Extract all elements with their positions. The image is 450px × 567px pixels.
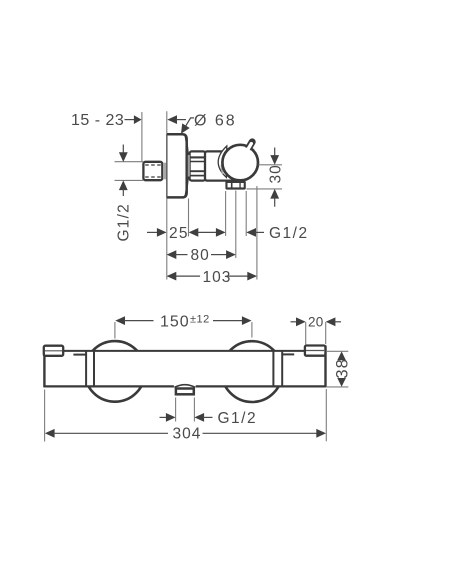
dimension row 103: [167, 269, 257, 286]
dimension label Ø 68: [167, 112, 236, 134]
right collar: [273, 351, 282, 387]
extension line nut-left: [225, 191, 227, 236]
svg-text:38: 38: [334, 358, 352, 378]
wire extension line A (escutcheon left face): [166, 111, 168, 279]
dimension 20: [291, 314, 342, 344]
svg-text:150: 150: [160, 314, 190, 331]
body bar: [44, 346, 325, 388]
escutcheon: [167, 134, 188, 198]
dimension 38: [327, 351, 352, 387]
dimension row 25 / G1/2 right: [147, 225, 309, 242]
svg-text:G1/2: G1/2: [116, 203, 133, 241]
dimension row 80: [167, 247, 236, 264]
left collar: [86, 351, 94, 387]
extension centerline outlet axis: [235, 191, 237, 259]
svg-text:15 - 23: 15 - 23: [71, 112, 124, 129]
pipe stub (wall connection): [143, 162, 166, 180]
svg-text:30: 30: [268, 164, 285, 183]
svg-text:103: 103: [203, 269, 232, 286]
wire wall extension line: [141, 112, 143, 162]
dimension G1/2 (bottom): [160, 398, 258, 428]
dimension 304: [45, 389, 327, 443]
left union step: [73, 354, 86, 356]
lever: [244, 142, 252, 155]
svg-text:Ø 68: Ø 68: [194, 112, 237, 129]
extension line B (escutcheon right): [188, 199, 190, 237]
handle rear flange arc: [218, 146, 227, 177]
inner disc to clean handle interior: [224, 146, 256, 178]
handle circle: [222, 145, 258, 181]
svg-text:20: 20: [308, 314, 324, 329]
svg-text:G1/2: G1/2: [218, 410, 258, 427]
dimension G1/2 (left, stub thread): [115, 145, 144, 242]
extension line E (handle front): [256, 186, 258, 280]
svg-text:25: 25: [169, 225, 189, 242]
valve body: [205, 151, 240, 180]
right escutcheon circle: [222, 341, 283, 402]
svg-text:304: 304: [173, 426, 202, 443]
union nut (knurled): [188, 151, 206, 180]
svg-text:±12: ±12: [190, 313, 210, 325]
dimension 15-23: [71, 112, 142, 129]
right stub: [305, 346, 326, 356]
extension line nut-right: [245, 191, 247, 236]
left escutcheon circle: [85, 341, 146, 402]
outlet nut: [225, 181, 245, 190]
outlet (bottom center): [174, 384, 196, 396]
svg-text:80: 80: [191, 247, 210, 264]
left stub: [44, 346, 63, 356]
dimension 150 ±12: [115, 313, 252, 338]
svg-text:G1/2: G1/2: [269, 225, 309, 242]
right union step: [282, 353, 294, 355]
dimension 30 (right vertical): [247, 148, 285, 207]
